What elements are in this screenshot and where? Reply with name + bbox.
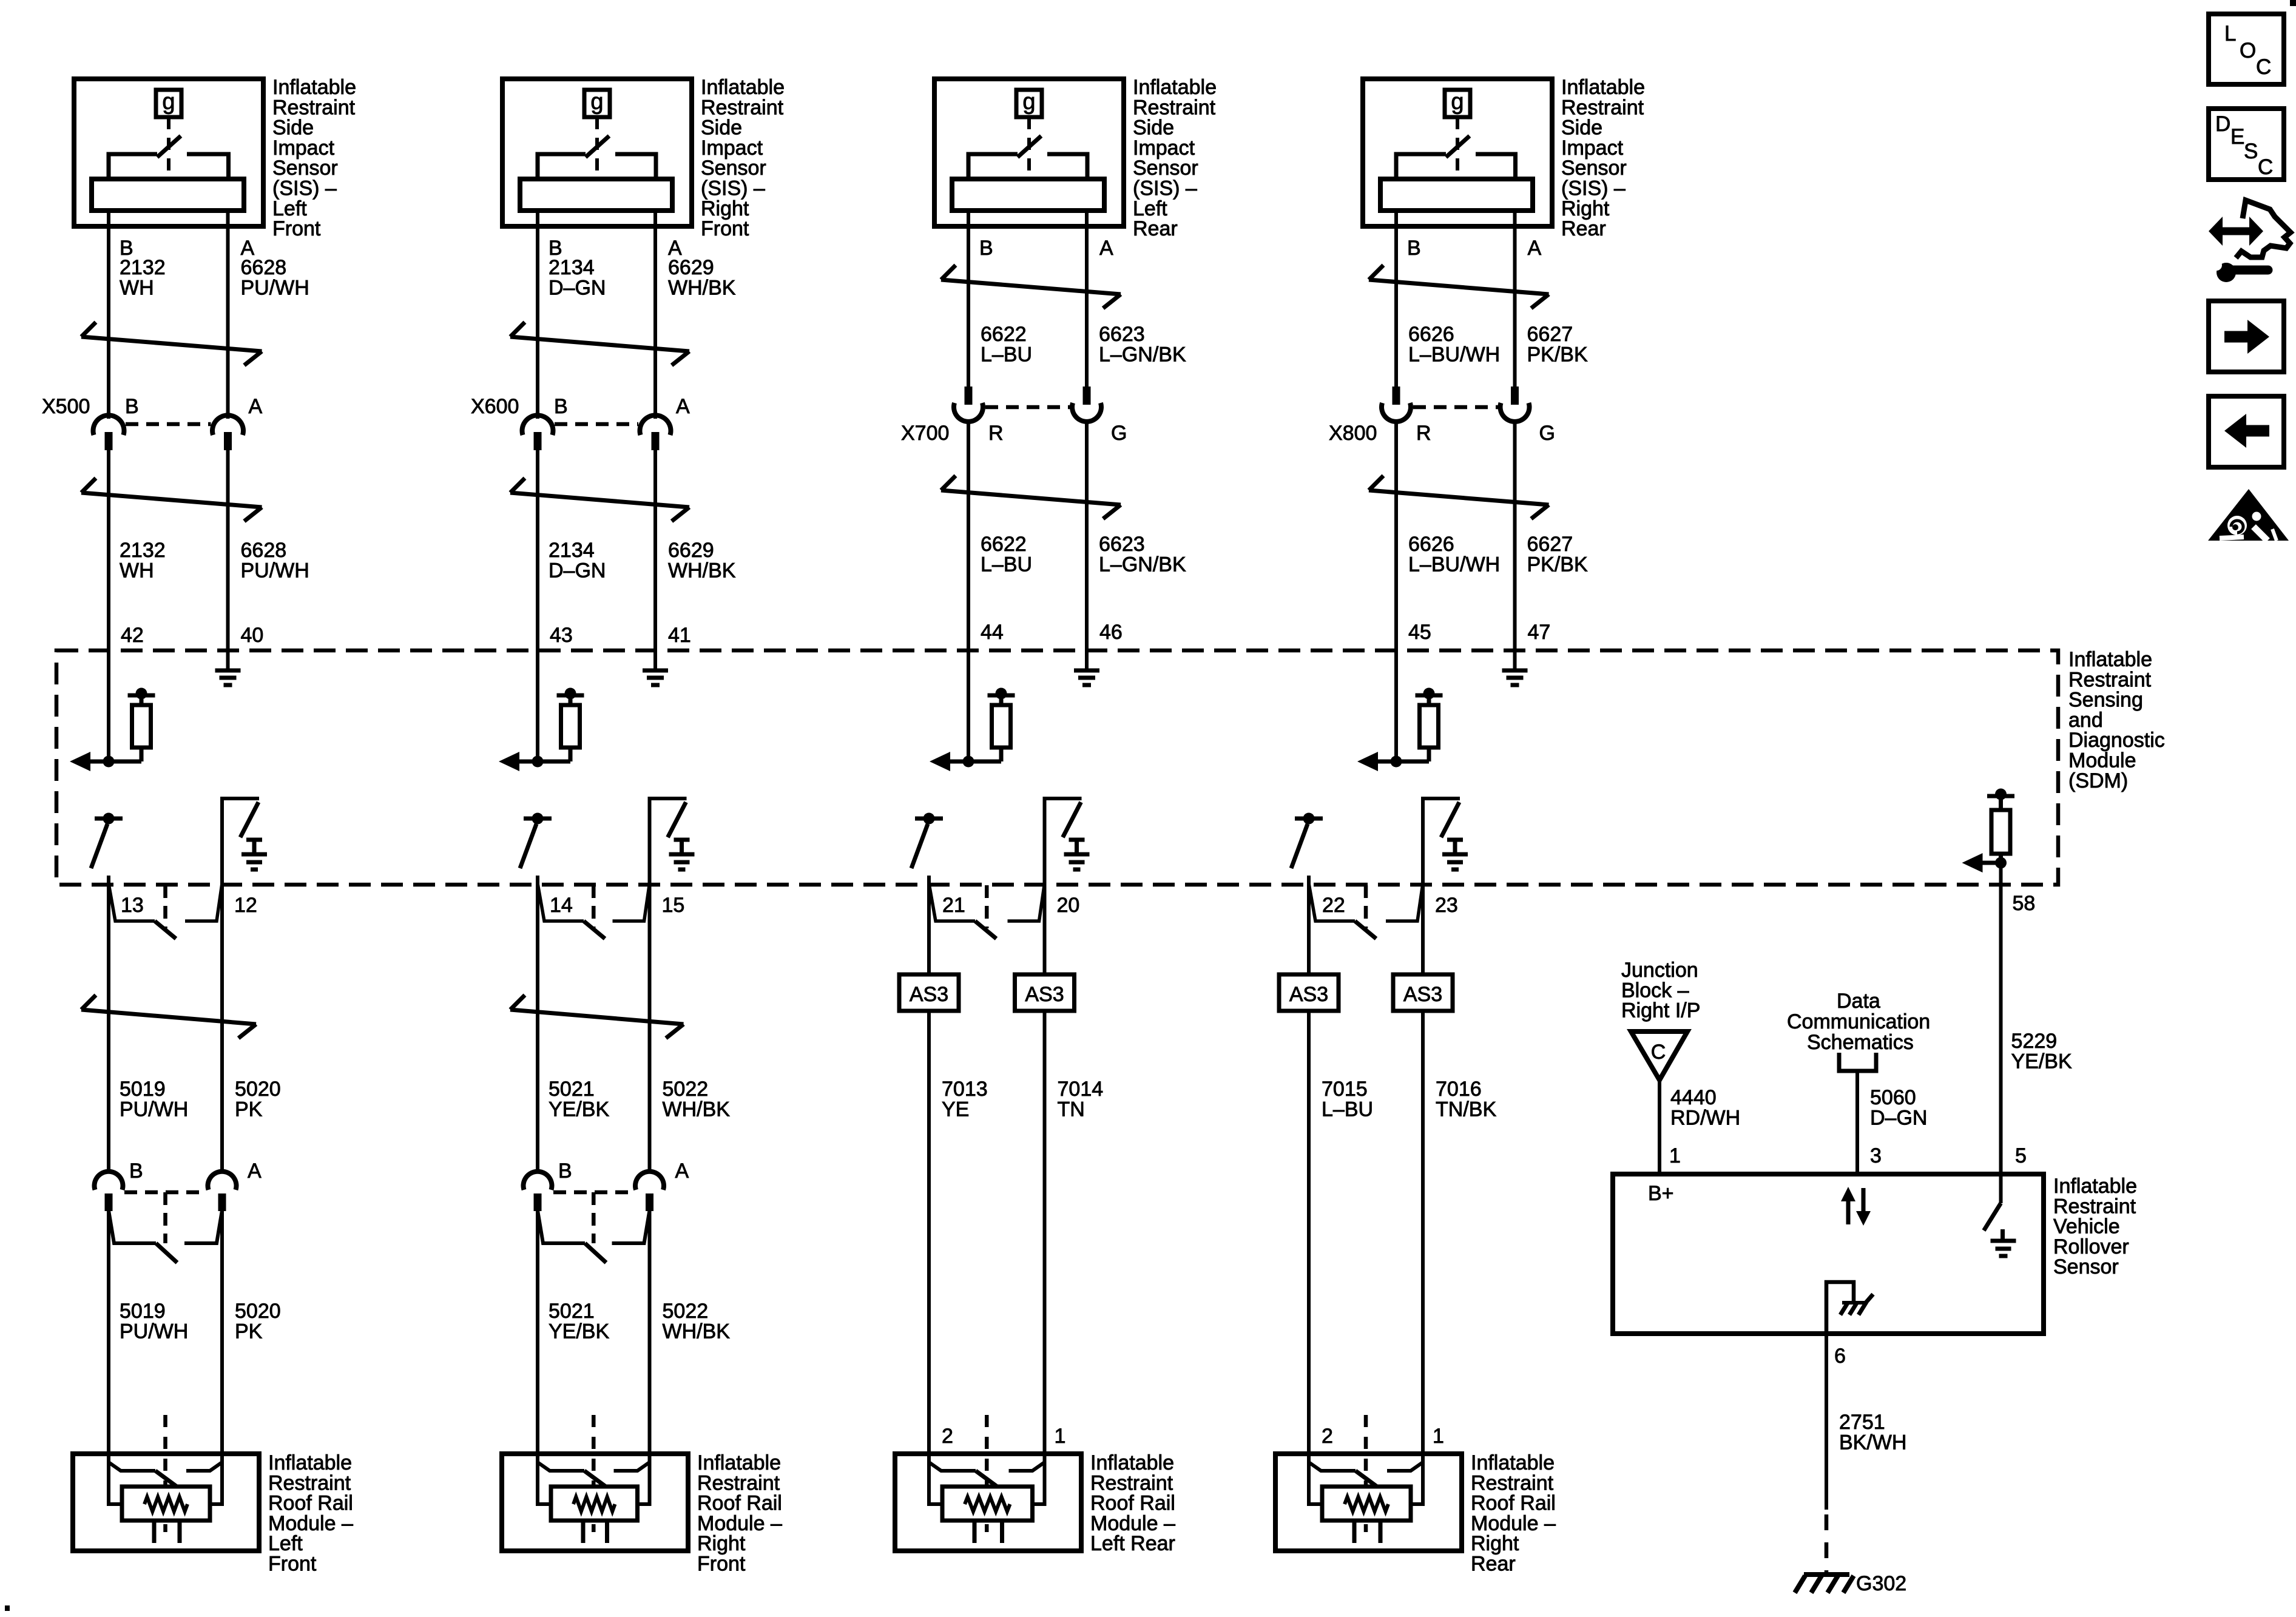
svg-text:5020: 5020 — [235, 1300, 281, 1323]
svg-text:20: 20 — [1057, 894, 1080, 917]
svg-text:PU/WH: PU/WH — [241, 276, 309, 299]
svg-text:Inflatable: Inflatable — [1090, 1451, 1174, 1474]
svg-text:X800: X800 — [1329, 422, 1377, 445]
rollover sensor internal switch ground — [1991, 1229, 2016, 1256]
in-line connector AS3 (right rear left) — [1279, 974, 1339, 1011]
svg-text:Restraint: Restraint — [1090, 1471, 1173, 1494]
wire 5022 WH/BK segment (right front right) — [648, 885, 652, 1171]
svg-text:Restraint: Restraint — [701, 96, 784, 119]
svg-text:Diagnostic: Diagnostic — [2068, 729, 2165, 752]
SDM internal ground (pin 15) — [669, 840, 695, 869]
svg-text:Sensor: Sensor — [272, 157, 338, 180]
svg-text:Module –: Module – — [1471, 1512, 1556, 1535]
svg-text:6629: 6629 — [668, 539, 714, 562]
svg-text:AS3: AS3 — [1403, 983, 1442, 1006]
svg-text:BK/WH: BK/WH — [1839, 1431, 1906, 1454]
module squib box (left front) — [122, 1487, 210, 1521]
wire crossing symbol left front below SDM — [81, 995, 256, 1038]
lower connector female terminal A (right front) — [635, 1172, 664, 1190]
svg-text:6622: 6622 — [981, 533, 1027, 556]
svg-text:Data: Data — [1837, 990, 1880, 1013]
wire 2134 D–GN lower segment (right front B) — [536, 450, 539, 761]
svg-text:B: B — [979, 237, 993, 260]
svg-text:D–GN: D–GN — [549, 559, 606, 582]
svg-text:Inflatable: Inflatable — [697, 1451, 781, 1474]
svg-text:and: and — [2068, 709, 2103, 732]
svg-text:Front: Front — [697, 1553, 746, 1576]
svg-text:R: R — [988, 422, 1004, 445]
svg-text:Vehicle: Vehicle — [2053, 1215, 2120, 1238]
lower connector male pin A (left front) — [218, 1193, 226, 1211]
dashed deployment link (left rear) — [985, 1415, 989, 1532]
g-symbol box (right front) — [584, 90, 610, 117]
back arrow — [2224, 414, 2269, 448]
wire 5021 YE/BK to module (right front) — [536, 1210, 539, 1454]
rollover sensor internal switch wire — [1999, 1174, 2003, 1203]
SDM internal resistor (pin 44) — [992, 705, 1011, 748]
svg-text:WH/BK: WH/BK — [668, 276, 736, 299]
svg-text:12: 12 — [234, 894, 257, 917]
module initiator legs (left rear) — [974, 1521, 1002, 1543]
svg-text:6626: 6626 — [1408, 323, 1454, 346]
svg-text:6627: 6627 — [1527, 323, 1573, 346]
svg-text:PU/WH: PU/WH — [241, 559, 309, 582]
module squib heating element (right front) — [573, 1497, 615, 1511]
svg-text:6629: 6629 — [668, 256, 714, 279]
svg-text:7014: 7014 — [1058, 1078, 1104, 1101]
SDM internal ground (pin 41) — [643, 669, 668, 673]
in-line connector AS3 (left rear left) — [899, 974, 959, 1011]
sensor switch blade (left rear) — [1018, 136, 1041, 157]
svg-text:Restraint: Restraint — [1133, 96, 1216, 119]
module squib leads (right rear) — [1309, 1454, 1423, 1506]
svg-text:L–GN/BK: L–GN/BK — [1099, 553, 1186, 576]
wire 7016 TN/BK segment (right rear) — [1421, 1011, 1425, 1454]
svg-text:1: 1 — [1055, 1425, 1066, 1448]
svg-text:2751: 2751 — [1839, 1411, 1885, 1434]
module squib box (right front) — [551, 1487, 638, 1521]
page corner mark top right — [2290, 0, 2296, 6]
connector X600 male pin B — [534, 432, 542, 450]
rollover sensor data down arrow — [1856, 1188, 1871, 1226]
connector X500 male pin B — [105, 432, 113, 450]
svg-text:R: R — [1416, 422, 1431, 445]
svg-text:D: D — [2215, 112, 2230, 136]
in-line connector AS3 (left rear right) — [1015, 974, 1075, 1011]
module shorting bar right (left rear) — [1009, 1462, 1045, 1471]
lower connector shorting bar left (right front) — [538, 1210, 606, 1263]
wire 5229 YE/BK segment — [1999, 863, 2003, 1174]
connector X800 dashed link — [1413, 405, 1500, 410]
svg-text:6622: 6622 — [981, 323, 1027, 346]
sensor left contact (right rear) — [1396, 154, 1446, 181]
svg-text:Impact: Impact — [701, 137, 763, 160]
svg-text:g: g — [1022, 89, 1035, 115]
svg-text:WH/BK: WH/BK — [668, 559, 736, 582]
SDM internal left arrow (pin 43) — [499, 752, 519, 771]
svg-text:L–GN/BK: L–GN/BK — [1099, 343, 1186, 366]
SDM internal ground (pin 40) — [215, 669, 241, 673]
SDM internal switch to ground, wire and arm (pin 23) — [1423, 798, 1460, 885]
svg-text:TN: TN — [1058, 1098, 1085, 1121]
connector X600 female terminal B — [522, 415, 553, 435]
SDM harness connector dashed link (pins 13/12) — [163, 885, 167, 928]
off-page connector bracket — [1839, 1053, 1876, 1071]
svg-text:58: 58 — [2013, 892, 2036, 915]
SDM internal resistor (pin 45) — [1420, 705, 1439, 748]
svg-text:B: B — [125, 395, 139, 418]
SDM harness connector shorting bar left (pins 22/23) — [1309, 883, 1376, 939]
svg-text:43: 43 — [550, 624, 573, 647]
module shorting bar right (right rear) — [1387, 1462, 1423, 1471]
svg-text:Block –: Block – — [1621, 979, 1689, 1002]
wire 6626 L–BU/WH lower segment (right rear R) — [1394, 422, 1398, 761]
svg-text:47: 47 — [1528, 621, 1551, 644]
svg-text:A: A — [676, 395, 690, 418]
svg-text:5: 5 — [2015, 1144, 2027, 1167]
SDM internal ground (pin 47) — [1502, 669, 1528, 673]
svg-text:Roof Rail: Roof Rail — [268, 1492, 353, 1515]
dashed deployment link (left front) — [163, 1415, 167, 1532]
SIS sensor box (right rear) — [1363, 79, 1552, 226]
connector X700 male pin R — [965, 387, 973, 405]
svg-text:(SIS) –: (SIS) – — [272, 177, 337, 200]
svg-text:B: B — [554, 395, 568, 418]
wire crossing symbol left front upper — [81, 322, 262, 365]
svg-text:2134: 2134 — [549, 256, 595, 279]
svg-text:2132: 2132 — [120, 256, 166, 279]
SDM internal lead and junction (pin 42) — [87, 748, 141, 768]
svg-text:Right: Right — [1471, 1532, 1519, 1555]
SDM internal ground (pin 20) — [1064, 840, 1090, 869]
wire 7015 L–BU segment (right rear) — [1307, 1011, 1311, 1454]
module initiator legs (left front) — [154, 1521, 180, 1543]
svg-text:S: S — [2244, 140, 2258, 163]
connector X600 dashed link — [555, 422, 638, 427]
svg-text:2132: 2132 — [120, 539, 166, 562]
svg-text:Restraint: Restraint — [268, 1471, 351, 1494]
svg-text:Rear: Rear — [1133, 217, 1178, 240]
SDM internal switch blade (pin 12) — [240, 802, 258, 837]
wire 6627 PK/BK upper segment (right rear A) — [1513, 211, 1517, 388]
wire crossing symbol right front below SDM — [510, 995, 684, 1038]
SDM internal switch blade (pin 13) — [91, 824, 107, 868]
wire crossing symbol left rear lower — [941, 476, 1121, 519]
lower connector shorting bar left (left front) — [109, 1210, 177, 1263]
connector X800 female terminal R — [1382, 403, 1411, 422]
svg-text:5022: 5022 — [663, 1078, 709, 1101]
svg-text:4440: 4440 — [1670, 1086, 1717, 1109]
svg-text:1: 1 — [1669, 1144, 1681, 1167]
module squib heating element (right rear) — [1345, 1497, 1388, 1511]
svg-text:B: B — [558, 1160, 572, 1183]
svg-text:Left: Left — [272, 197, 307, 220]
svg-text:G: G — [1539, 422, 1555, 445]
svg-text:X600: X600 — [471, 395, 519, 418]
connector X500 male pin A — [224, 432, 232, 450]
connector X700 female terminal R — [954, 403, 983, 422]
wire 6628 PU/WH upper segment (left front A) — [226, 211, 230, 419]
svg-text:Side: Side — [1133, 116, 1174, 140]
svg-text:D–GN: D–GN — [1870, 1106, 1927, 1129]
g-symbol box (left rear) — [1016, 90, 1042, 117]
wire segment to AS3 (left rear right) — [1043, 885, 1047, 974]
svg-text:PK: PK — [235, 1098, 263, 1121]
svg-text:A: A — [248, 1160, 262, 1183]
connector X500 female terminal A — [212, 415, 243, 435]
svg-text:6623: 6623 — [1099, 533, 1145, 556]
svg-text:Sensing: Sensing — [2068, 689, 2143, 712]
wire 4440 RD/WH segment — [1658, 1080, 1661, 1174]
svg-text:45: 45 — [1408, 621, 1431, 644]
SDM dashed module outline — [56, 650, 2058, 885]
svg-text:5022: 5022 — [663, 1300, 709, 1323]
rollover sensor internal ground branch — [1826, 1282, 1854, 1334]
svg-text:PK: PK — [235, 1320, 263, 1343]
roof rail module box (left front) — [73, 1454, 259, 1551]
wire 7014 TN segment (left rear) — [1043, 1011, 1047, 1454]
svg-text:(SIS) –: (SIS) – — [1561, 177, 1626, 200]
svg-text:Sensor: Sensor — [2053, 1255, 2119, 1278]
svg-text:Restraint: Restraint — [697, 1471, 780, 1494]
SDM harness connector shorting bar right (pins 21/20) — [1008, 883, 1045, 921]
svg-text:Front: Front — [701, 217, 749, 240]
wire crossing symbol right rear upper — [1369, 265, 1549, 308]
lower connector shorting bar right (right front) — [612, 1210, 650, 1243]
svg-text:Sensor: Sensor — [1561, 157, 1627, 180]
connector X600 female terminal A — [640, 415, 671, 435]
svg-text:5021: 5021 — [549, 1078, 595, 1101]
wire 6623 L–GN/BK lower segment (left rear G) — [1085, 422, 1089, 669]
roof rail module box (right rear) — [1275, 1454, 1462, 1551]
SDM internal switch to ground, wire and arm (pin 15) — [650, 798, 687, 885]
sensor switch blade (right front) — [586, 136, 609, 157]
svg-text:E: E — [2230, 125, 2244, 149]
svg-text:13: 13 — [121, 894, 144, 917]
connector X600 male pin A — [652, 432, 660, 450]
lower connector male pin B (left front) — [105, 1193, 113, 1211]
svg-text:42: 42 — [121, 624, 144, 647]
svg-text:7015: 7015 — [1322, 1078, 1368, 1101]
lower connector dashed link (right front) — [553, 1190, 634, 1195]
connector-view icon double arrow — [2209, 217, 2263, 246]
dashed actuation link (right front) — [595, 117, 599, 181]
svg-text:Left Rear: Left Rear — [1090, 1532, 1175, 1555]
svg-text:Left: Left — [1133, 197, 1167, 220]
wire 2132 WH lower segment (left front B) — [107, 450, 110, 761]
svg-text:2: 2 — [1322, 1425, 1333, 1448]
module squib leads (left rear) — [929, 1454, 1045, 1506]
svg-text:YE/BK: YE/BK — [2011, 1050, 2072, 1073]
svg-text:5060: 5060 — [1870, 1086, 1916, 1109]
SDM internal switch blade (pin 21) — [911, 824, 928, 868]
rollover sensor internal chassis ground — [1840, 1294, 1873, 1315]
SDM internal switch blade (pin 14) — [520, 824, 536, 868]
SDM harness connector dashed link (pins 14/15) — [592, 885, 596, 928]
connector X500 dashed link — [126, 422, 211, 427]
svg-text:B: B — [1407, 237, 1421, 260]
SDM internal left arrow (pin 45) — [1357, 752, 1378, 771]
module squib leads (left front) — [109, 1454, 222, 1506]
SDM internal switch contact bar (pin 22) — [1295, 813, 1323, 825]
sensor element bar (right front) — [520, 179, 672, 211]
svg-text:C: C — [2256, 55, 2271, 79]
page corner mark bottom left — [5, 1605, 10, 1611]
SDM internal left arrow (pin 42) — [70, 752, 90, 771]
svg-text:YE/BK: YE/BK — [549, 1098, 609, 1121]
SDM internal switch contact bar (pin 14) — [524, 813, 552, 825]
SDM internal resistor (pin 43) — [561, 705, 580, 748]
svg-text:Right I/P: Right I/P — [1621, 999, 1700, 1022]
svg-text:Inflatable: Inflatable — [1471, 1451, 1555, 1474]
svg-text:L–BU: L–BU — [1322, 1098, 1373, 1121]
in-line connector AS3 (right rear right) — [1393, 974, 1453, 1011]
svg-text:Module –: Module – — [268, 1512, 353, 1535]
SDM internal lead and junction (pin 45) — [1375, 748, 1429, 768]
svg-text:6627: 6627 — [1527, 533, 1573, 556]
SIS sensor box (right front) — [502, 79, 692, 226]
sensor switch blade (left front) — [157, 136, 181, 157]
wire segment to AS3 (left rear left) — [927, 876, 931, 974]
SDM internal left arrow (pin 44) — [930, 752, 950, 771]
svg-text:6628: 6628 — [241, 539, 287, 562]
svg-text:O: O — [2240, 39, 2256, 62]
wire crossing symbol right front lower — [510, 478, 689, 521]
module initiator legs (right front) — [583, 1521, 607, 1543]
svg-text:C: C — [2258, 155, 2273, 179]
connector X800 female terminal G — [1501, 403, 1530, 422]
svg-text:YE/BK: YE/BK — [549, 1320, 609, 1343]
SDM internal resistor (pin 42) — [132, 705, 151, 748]
svg-text:Side: Side — [701, 116, 742, 140]
SIS sensor box (left rear) — [934, 79, 1124, 226]
SDM internal left arrow (pin 58) — [1962, 853, 1983, 873]
wire 2751 BK/WH segment — [1825, 1334, 1828, 1510]
svg-text:Side: Side — [1561, 116, 1602, 140]
svg-text:5229: 5229 — [2011, 1030, 2058, 1053]
svg-text:6626: 6626 — [1408, 533, 1454, 556]
connector X700 dashed link — [985, 405, 1072, 410]
svg-text:2134: 2134 — [549, 539, 595, 562]
SDM harness connector dashed link (pins 22/23) — [1364, 885, 1368, 928]
SDM internal rail T-bar and junction dot (pin 45) — [1416, 688, 1443, 707]
connector X800 male pin G — [1511, 387, 1519, 405]
svg-text:Restraint: Restraint — [1561, 96, 1644, 119]
dashed actuation link (right rear) — [1456, 117, 1459, 181]
module shorting bar left (right rear) — [1309, 1462, 1379, 1488]
dashed deployment link (right rear) — [1364, 1415, 1368, 1532]
SDM harness connector shorting bar left (pins 14/15) — [538, 883, 605, 939]
connector-view icon wrench — [2211, 260, 2268, 282]
wire segment to AS3 (right rear left) — [1307, 876, 1311, 974]
svg-text:X700: X700 — [901, 422, 949, 445]
SDM harness connector shorting bar left (pins 21/20) — [929, 883, 996, 939]
SDM harness connector shorting bar right (pins 14/15) — [613, 883, 650, 921]
lower connector male pin A (right front) — [646, 1193, 653, 1211]
wire 5022 WH/BK to module (right front) — [648, 1210, 652, 1454]
svg-text:5021: 5021 — [549, 1300, 595, 1323]
lower connector shorting bar right (left front) — [184, 1210, 222, 1243]
svg-text:G: G — [1111, 422, 1127, 445]
svg-text:6628: 6628 — [241, 256, 287, 279]
sensor right contact (right rear) — [1476, 154, 1516, 181]
svg-text:Rollover: Rollover — [2053, 1235, 2129, 1258]
svg-text:L–BU/WH: L–BU/WH — [1408, 343, 1500, 366]
svg-text:Impact: Impact — [1561, 137, 1624, 160]
svg-text:Restraint: Restraint — [1471, 1471, 1554, 1494]
svg-text:44: 44 — [981, 621, 1004, 644]
svg-text:14: 14 — [550, 894, 573, 917]
svg-text:Roof Rail: Roof Rail — [697, 1492, 782, 1515]
module shorting bar right (left front) — [186, 1462, 222, 1471]
svg-text:Rear: Rear — [1471, 1553, 1516, 1576]
module squib box (right rear) — [1322, 1487, 1411, 1521]
lower connector female terminal B (right front) — [524, 1172, 552, 1190]
svg-text:40: 40 — [241, 624, 264, 647]
svg-text:WH/BK: WH/BK — [663, 1098, 731, 1121]
svg-text:3: 3 — [1870, 1144, 1882, 1167]
svg-text:Roof Rail: Roof Rail — [1090, 1492, 1175, 1515]
SDM internal switch to ground, wire and arm (pin 20) — [1045, 798, 1082, 885]
LOC icon box — [2209, 14, 2284, 84]
svg-text:(SIS) –: (SIS) – — [701, 177, 765, 200]
svg-text:L–BU/WH: L–BU/WH — [1408, 553, 1500, 576]
dashed actuation link (left front) — [167, 117, 171, 181]
svg-text:A: A — [1099, 237, 1113, 260]
svg-text:PK/BK: PK/BK — [1527, 553, 1588, 576]
sensor element bar (left rear) — [952, 179, 1104, 211]
svg-text:Inflatable: Inflatable — [1561, 76, 1645, 99]
SDM internal lead and junction (pin 43) — [516, 748, 570, 768]
connector X500 female terminal B — [93, 415, 124, 435]
svg-text:(SDM): (SDM) — [2068, 769, 2128, 792]
svg-text:Sensor: Sensor — [1133, 157, 1198, 180]
wire 5060 D-GN segment — [1855, 1071, 1859, 1174]
svg-text:41: 41 — [668, 624, 691, 647]
wire segment to AS3 (right rear right) — [1421, 885, 1425, 974]
svg-text:Module –: Module – — [697, 1512, 782, 1535]
module shorting bar left (right front) — [538, 1462, 607, 1488]
wire 5019 PU/WH to module (left front) — [107, 1210, 110, 1454]
SDM harness connector shorting bar right (pins 22/23) — [1386, 883, 1423, 921]
svg-text:A: A — [675, 1160, 689, 1183]
sensor switch blade (right rear) — [1446, 136, 1470, 157]
SDM internal switch blade (pin 22) — [1291, 824, 1308, 868]
module shorting bar left (left front) — [109, 1462, 178, 1488]
wire 6623 L–GN/BK upper segment (left rear A) — [1085, 211, 1089, 388]
wire 5020 PK segment (left front right) — [220, 885, 224, 1171]
SIS sensor box (left front) — [74, 79, 263, 226]
svg-text:D–GN: D–GN — [549, 276, 606, 299]
SDM internal ground (pin 12) — [241, 840, 267, 869]
sensor right contact (left rear) — [1047, 154, 1087, 181]
wire 6627 PK/BK lower segment (right rear G) — [1513, 422, 1517, 669]
svg-text:46: 46 — [1099, 621, 1123, 644]
SDM harness connector shorting bar right (pins 13/12) — [185, 883, 222, 921]
svg-text:(SIS) –: (SIS) – — [1133, 177, 1197, 200]
SDM internal lead and junction (pin 58) — [1980, 854, 2007, 869]
svg-text:YE: YE — [942, 1098, 969, 1121]
svg-text:Inflatable: Inflatable — [272, 76, 356, 99]
svg-text:Side: Side — [272, 116, 314, 140]
wire 5020 PK to module (left front) — [220, 1210, 224, 1454]
lower connector male pin B (right front) — [534, 1193, 542, 1211]
wire 5019 PU/WH segment (left front left) — [107, 876, 110, 1171]
svg-text:Inflatable: Inflatable — [701, 76, 785, 99]
dashed actuation link (left rear) — [1027, 117, 1031, 181]
svg-text:g: g — [590, 89, 603, 115]
svg-text:A: A — [249, 395, 263, 418]
